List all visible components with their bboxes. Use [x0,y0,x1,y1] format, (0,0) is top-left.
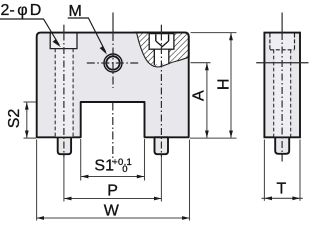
side view screw stub [275,137,289,154]
side view hole interior light strip [274,49,290,136]
H dimension line [230,33,232,138]
P dimension line [64,198,161,200]
screw shank in section (white) [154,49,169,65]
section break arc line [137,33,189,67]
svg-text:0: 0 [122,164,127,175]
side view vertical centerline [281,13,283,34]
broken-out section hatched region (top-right corner) [130,31,192,71]
bottom extension line for A and H [190,137,237,139]
M hole vertical centerline [112,13,114,34]
leader line for 2-phiD [0,19,59,45]
right hole centerline [160,25,162,34]
W extension lines [36,140,38,221]
left counterbore interior light strip [51,34,76,48]
svg-text:T: T [277,180,287,197]
side view counterbore interior light strip [271,34,294,50]
S1 dimension line [81,176,144,178]
svg-text:P: P [107,183,118,200]
right screw stub (protruding screw end) [155,137,169,154]
part centerline through notch [112,103,114,163]
svg-text:2-φD: 2-φD [1,2,42,19]
svg-text:S2: S2 [6,109,23,129]
svg-text:W: W [104,203,120,220]
W dimension line [37,217,190,219]
cap screw head in section (white) [149,34,174,50]
left hole centerline extension to P line [63,157,65,202]
H top extension line [191,32,237,34]
left hole centerline [63,25,65,34]
left counterbore rectangle [50,34,77,49]
S2 dimension extension lines [24,101,37,103]
svg-text:H: H [215,79,232,91]
S2 dimension line [26,102,28,138]
M hole axis line across side view [256,62,308,64]
side view hole hidden dashed lines [273,50,275,137]
svg-text:A: A [190,90,207,101]
hex socket of cap screw [155,34,157,41]
side view counterbore hidden dashed rectangle [270,34,295,50]
side view body [264,33,300,138]
S1 extension lines [80,139,82,181]
A dimension top extension line (M hole axis) [191,62,211,64]
left screw stub (protruding screw end) [58,137,71,154]
leader line for M [68,18,106,52]
tapped hole M outer circle [104,54,122,72]
left hole interior light strip [56,49,73,137]
svg-text:S1: S1 [94,157,114,174]
M hole horizontal centerline [87,62,138,64]
right hole centerline extension to P line [160,157,162,202]
A dimension line [206,63,208,138]
left hole hidden dashed lines [54,49,56,137]
T extension lines [263,140,265,201]
front view part body (inverted-U bracket) [37,33,189,138]
part top edge re-stroke over section [134,32,185,34]
T dimension line [262,197,303,199]
tapped hole M inner circle [106,56,119,69]
